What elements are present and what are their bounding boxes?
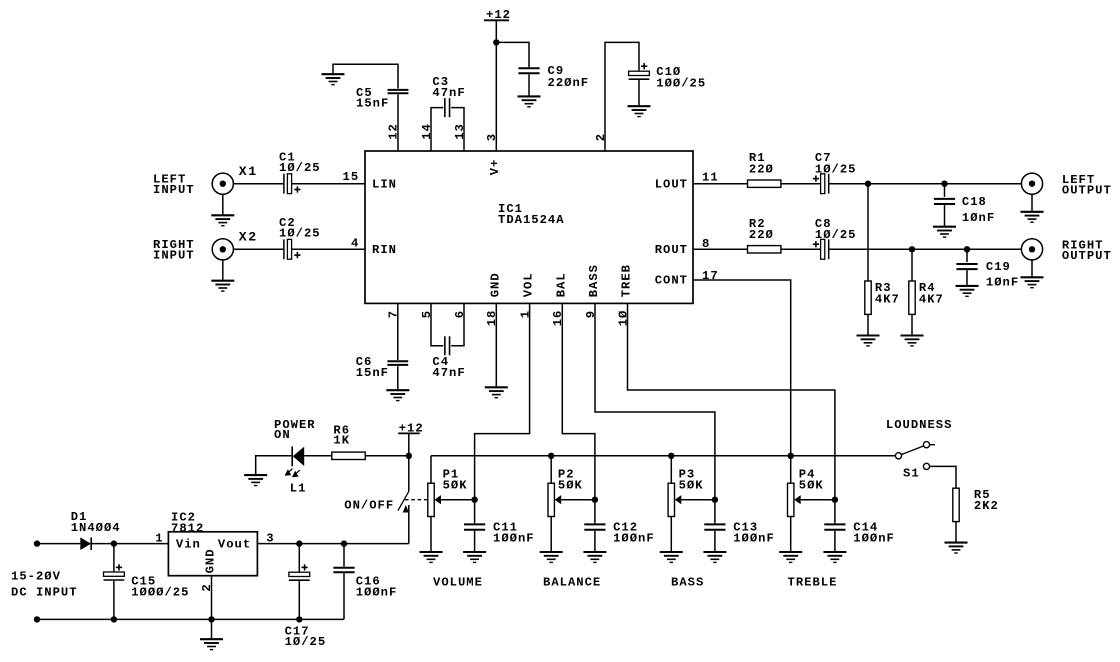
svg-text:11: 11 bbox=[702, 171, 719, 185]
svg-text:L1: L1 bbox=[290, 481, 307, 495]
ground R4 bbox=[901, 336, 924, 346]
wire terminal to D1 bbox=[37, 543, 80, 545]
wire pin7 to C6 bbox=[397, 303, 399, 360]
svg-text:S1: S1 bbox=[903, 466, 920, 480]
wire X1 to ground bbox=[222, 194, 224, 215]
wire to C18 bbox=[944, 184, 946, 197]
junction bbox=[941, 181, 947, 187]
junction bbox=[548, 453, 554, 459]
svg-text:X2: X2 bbox=[239, 229, 258, 244]
wire R3 to ground bbox=[867, 314, 869, 335]
wire LED to R6 bbox=[304, 455, 332, 457]
ground C13 bbox=[703, 552, 726, 562]
ground P1 bbox=[420, 552, 443, 562]
capacitor C9 bbox=[518, 68, 539, 73]
capacitor C13 bbox=[704, 524, 725, 529]
wire to C16 bbox=[343, 544, 345, 567]
junction bbox=[964, 246, 970, 252]
wire CONT to loudness rail bbox=[693, 280, 791, 456]
svg-text:15: 15 bbox=[343, 170, 360, 184]
wire R4 to ground bbox=[911, 314, 913, 335]
svg-text:+12: +12 bbox=[486, 8, 511, 22]
wire ground to LED bbox=[256, 456, 293, 475]
ground P4 bbox=[779, 552, 802, 562]
diode D1 bbox=[80, 537, 91, 550]
ground P2 bbox=[540, 552, 563, 562]
switch S1 bbox=[895, 442, 935, 470]
resistor R5 bbox=[953, 488, 959, 521]
svg-text:BASS: BASS bbox=[587, 264, 601, 297]
svg-text:GND: GND bbox=[204, 548, 218, 573]
svg-text:22ØnF: 22ØnF bbox=[548, 76, 590, 90]
svg-text:15nF: 15nF bbox=[356, 97, 389, 111]
wire to C17 bbox=[298, 544, 300, 573]
wire ROUT to R2 bbox=[693, 248, 748, 250]
wire P1 wiper bbox=[441, 499, 475, 501]
svg-text:1ØØnF: 1ØØnF bbox=[733, 531, 775, 545]
ground left output bbox=[1021, 212, 1044, 222]
svg-text:BAL: BAL bbox=[554, 272, 568, 297]
resistor R1 bbox=[748, 180, 781, 187]
svg-text:RIN: RIN bbox=[372, 243, 397, 257]
wire C18 to ground bbox=[944, 205, 946, 227]
wire rail to P2 bbox=[550, 456, 552, 483]
svg-text:V+: V+ bbox=[488, 159, 502, 176]
ground R3 bbox=[857, 336, 880, 346]
capacitor C19 bbox=[956, 264, 977, 269]
junction bbox=[788, 453, 794, 459]
capacitor C10 bbox=[629, 71, 650, 79]
svg-text:1ØØnF: 1ØØnF bbox=[853, 531, 895, 545]
svg-text:LOUDNESS: LOUDNESS bbox=[886, 418, 953, 432]
svg-text:C18: C18 bbox=[962, 195, 987, 209]
wire pin10 TREB to P4 wiper bbox=[628, 303, 835, 523]
svg-text:1K: 1K bbox=[333, 434, 350, 448]
plus C8 bbox=[813, 241, 819, 247]
capacitor C3 bbox=[445, 98, 450, 117]
wire C9 to ground bbox=[528, 74, 530, 96]
svg-text:BALANCE: BALANCE bbox=[543, 575, 601, 589]
wire to C19 bbox=[966, 249, 968, 262]
wire C4 to pin6 bbox=[451, 303, 464, 346]
wire C14 to ground bbox=[834, 531, 836, 552]
junction bbox=[865, 181, 871, 187]
switch ON/OFF bbox=[398, 456, 409, 544]
svg-text:5ØK: 5ØK bbox=[558, 478, 583, 492]
wire R6 to +12 node bbox=[365, 455, 409, 457]
wire pin9 BASS to P3 wiper bbox=[595, 303, 715, 523]
wire C6 to ground bbox=[397, 366, 399, 390]
junction bbox=[296, 616, 302, 622]
wire C15 to rail bbox=[113, 581, 115, 620]
wire P3 wiper bbox=[681, 499, 715, 501]
plus C2 bbox=[294, 252, 300, 258]
wire C17 to rail bbox=[298, 581, 300, 619]
junction bbox=[471, 497, 477, 503]
plus C1 bbox=[294, 186, 300, 192]
power flag +12 switch bbox=[398, 432, 420, 434]
svg-text:X1: X1 bbox=[239, 164, 258, 179]
wire C7 to left output bbox=[829, 183, 1022, 185]
wire pin16 BAL to P2 wiper bbox=[562, 303, 595, 523]
wire pin2 to C10 bbox=[605, 42, 639, 151]
wire P3 to ground bbox=[670, 517, 672, 553]
wire P2 wiper bbox=[561, 499, 595, 501]
svg-text:2K2: 2K2 bbox=[974, 499, 999, 513]
wire CONT rail bbox=[431, 455, 895, 457]
capacitor C2 bbox=[284, 239, 292, 259]
junction bbox=[341, 540, 347, 546]
svg-text:TREB: TREB bbox=[620, 264, 634, 297]
svg-text:ON: ON bbox=[274, 428, 291, 442]
potentiometer P4 bbox=[788, 483, 801, 516]
wire P4 to ground bbox=[790, 517, 792, 553]
svg-text:1Ø/25: 1Ø/25 bbox=[279, 226, 321, 240]
potentiometer P2 bbox=[548, 483, 561, 516]
capacitor C4 bbox=[445, 336, 450, 355]
wire pin5 to C4 bbox=[431, 303, 443, 346]
terminal DC+ bbox=[34, 540, 40, 546]
svg-text:LIN: LIN bbox=[372, 177, 397, 191]
wire C16 to rail bbox=[343, 573, 345, 619]
svg-text:4: 4 bbox=[351, 236, 359, 250]
junction bbox=[111, 540, 117, 546]
capacitor C1 bbox=[284, 174, 292, 194]
svg-text:22Ø: 22Ø bbox=[749, 162, 774, 176]
wire C12 to ground bbox=[594, 531, 596, 552]
junction bbox=[712, 497, 718, 503]
svg-text:1ØØnF: 1ØØnF bbox=[613, 531, 655, 545]
wire C3 to pin13 bbox=[451, 108, 464, 151]
junction bbox=[406, 453, 412, 459]
dashed link ON/OFF to P1 bbox=[405, 499, 428, 501]
svg-text:5ØK: 5ØK bbox=[799, 478, 824, 492]
ground X2 bbox=[211, 281, 234, 291]
capacitor C6 bbox=[387, 361, 408, 365]
wire rail to P1 bbox=[430, 456, 432, 483]
svg-text:1ØØ/25: 1ØØ/25 bbox=[656, 76, 706, 90]
svg-text:1ØnF: 1ØnF bbox=[986, 275, 1019, 289]
wire C19 to ground bbox=[966, 270, 968, 286]
wire IC2 pin2 bbox=[211, 576, 213, 620]
svg-text:INPUT: INPUT bbox=[153, 183, 195, 197]
wire X1 to C1 bbox=[233, 183, 283, 185]
junction bbox=[296, 540, 302, 546]
svg-text:5ØK: 5ØK bbox=[443, 478, 468, 492]
svg-text:1Ø/25: 1Ø/25 bbox=[279, 161, 321, 175]
wire C8 to right output bbox=[829, 248, 1022, 250]
wire D1 to IC2 bbox=[91, 543, 168, 545]
resistor R3 bbox=[865, 281, 871, 314]
wire S1 to R5 bbox=[930, 466, 956, 488]
junction bbox=[111, 616, 117, 622]
svg-text:47nF: 47nF bbox=[432, 86, 465, 100]
wire C11 to ground bbox=[474, 531, 476, 552]
connector X2 bbox=[212, 239, 233, 260]
ground right output bbox=[1021, 277, 1044, 287]
ground bbox=[518, 96, 541, 106]
ground LED bbox=[244, 475, 267, 485]
ground pin18 bbox=[485, 387, 508, 397]
svg-text:OUTPUT: OUTPUT bbox=[1062, 184, 1112, 198]
svg-text:22Ø: 22Ø bbox=[749, 228, 774, 242]
connector LEFT OUTPUT bbox=[1021, 173, 1042, 194]
svg-text:1N4ØØ4: 1N4ØØ4 bbox=[71, 521, 121, 535]
wire R5 to ground bbox=[955, 522, 957, 543]
junction bbox=[668, 453, 674, 459]
junction bbox=[493, 39, 499, 45]
wire X2 to ground bbox=[222, 260, 224, 281]
svg-text:BASS: BASS bbox=[671, 575, 704, 589]
wire C10 to ground bbox=[638, 80, 640, 106]
junction bbox=[832, 497, 838, 503]
wire LOUT to R1 bbox=[693, 183, 748, 185]
plus C17 bbox=[302, 564, 308, 570]
capacitor C18 bbox=[934, 199, 955, 204]
svg-text:1Ø/25: 1Ø/25 bbox=[815, 162, 857, 176]
ground C11 bbox=[463, 552, 486, 562]
svg-text:7812: 7812 bbox=[171, 521, 204, 535]
capacitor C12 bbox=[584, 524, 605, 529]
svg-text:4K7: 4K7 bbox=[875, 293, 900, 307]
svg-text:Vout: Vout bbox=[218, 538, 251, 552]
wire C5 to pin 12 bbox=[397, 94, 399, 151]
wire to ground bbox=[1031, 260, 1033, 277]
svg-text:TDA1524A: TDA1524A bbox=[498, 213, 565, 227]
svg-text:Vin: Vin bbox=[176, 538, 201, 552]
potentiometer P1 bbox=[428, 483, 441, 516]
svg-text:1ØnF: 1ØnF bbox=[962, 211, 995, 225]
ground C14 bbox=[823, 552, 846, 562]
wire to C15 bbox=[113, 544, 115, 572]
plus C15 bbox=[116, 564, 122, 570]
wire rail to P3 bbox=[670, 456, 672, 483]
resistor R6 bbox=[332, 452, 365, 459]
ground X1 bbox=[211, 215, 234, 225]
svg-text:47nF: 47nF bbox=[432, 366, 465, 380]
wire X2 to C2 bbox=[233, 248, 283, 250]
wire R1 to C7 bbox=[781, 183, 821, 185]
wire pin14 to C3 bbox=[431, 108, 443, 151]
wire to ground bbox=[1031, 194, 1033, 212]
terminal DC- bbox=[34, 616, 40, 622]
wire pin18 to ground bbox=[495, 303, 497, 387]
wire C13 to ground bbox=[714, 531, 716, 552]
ground P3 bbox=[660, 552, 683, 562]
wire rail to P4 bbox=[790, 456, 792, 483]
wire bottom rail bbox=[37, 618, 344, 620]
ground bbox=[628, 106, 651, 116]
svg-text:VOLUME: VOLUME bbox=[433, 575, 483, 589]
svg-text:INPUT: INPUT bbox=[153, 248, 195, 262]
wire pin1 VOL to P1 wiper bbox=[475, 303, 530, 523]
svg-text:ROUT: ROUT bbox=[655, 243, 688, 257]
resistor R2 bbox=[748, 246, 781, 253]
capacitor C5 bbox=[388, 90, 409, 93]
wire R2 to C8 bbox=[781, 248, 821, 250]
wire ground to C5 bbox=[333, 64, 398, 88]
svg-text:1Ø/25: 1Ø/25 bbox=[285, 635, 327, 649]
ground C12 bbox=[583, 552, 606, 562]
IC IC1 TDA1524A bbox=[365, 151, 693, 303]
ground supply bbox=[200, 639, 223, 649]
wire P1 to ground bbox=[430, 517, 432, 553]
plus C10 bbox=[641, 63, 647, 69]
svg-text:VOL: VOL bbox=[522, 272, 536, 297]
capacitor C11 bbox=[464, 524, 485, 529]
wire pin3 to +12 bbox=[495, 20, 497, 151]
plus C7 bbox=[813, 176, 819, 182]
ground R5 bbox=[945, 543, 968, 553]
svg-text:C19: C19 bbox=[986, 260, 1011, 274]
svg-text:1ØØnF: 1ØØnF bbox=[356, 586, 398, 600]
wire C2 to RIN bbox=[292, 248, 365, 250]
svg-text:TREBLE: TREBLE bbox=[788, 575, 838, 589]
wire to C9 bbox=[496, 42, 529, 67]
wire to ground bbox=[211, 619, 213, 639]
ground C6 bbox=[386, 390, 409, 400]
svg-text:OUTPUT: OUTPUT bbox=[1062, 249, 1112, 263]
svg-text:CONT: CONT bbox=[655, 274, 688, 288]
capacitor C8 bbox=[821, 239, 829, 259]
IC IC2 7812 bbox=[168, 532, 257, 576]
svg-text:DC INPUT: DC INPUT bbox=[11, 586, 78, 600]
wire to R4 bbox=[911, 249, 913, 281]
LED L1 bbox=[286, 446, 305, 476]
connector RIGHT OUTPUT bbox=[1021, 239, 1042, 260]
junction bbox=[909, 246, 915, 252]
svg-text:GND: GND bbox=[488, 272, 502, 297]
connector X1 bbox=[212, 173, 233, 194]
wire P4 wiper bbox=[801, 499, 835, 501]
wire to R3 bbox=[867, 184, 869, 281]
ground C18 bbox=[933, 227, 956, 237]
wire +12 flag bbox=[408, 433, 410, 455]
svg-text:LOUT: LOUT bbox=[655, 177, 688, 191]
svg-text:15-2ØV: 15-2ØV bbox=[11, 570, 61, 584]
ground C19 bbox=[956, 286, 979, 296]
svg-text:1: 1 bbox=[155, 532, 163, 546]
svg-text:1ØØØ/25: 1ØØØ/25 bbox=[131, 586, 189, 600]
svg-text:+12: +12 bbox=[399, 422, 424, 436]
svg-text:1ØØnF: 1ØØnF bbox=[493, 531, 535, 545]
wire IC2 out to switch bbox=[257, 543, 408, 545]
svg-text:ON/OFF: ON/OFF bbox=[344, 498, 394, 512]
power flag +12 bbox=[484, 19, 509, 21]
svg-text:4K7: 4K7 bbox=[919, 293, 944, 307]
wire P2 to ground bbox=[550, 517, 552, 553]
wire C1 to LIN bbox=[292, 183, 365, 185]
junction bbox=[592, 497, 598, 503]
svg-text:15nF: 15nF bbox=[356, 366, 389, 380]
potentiometer P3 bbox=[668, 483, 681, 516]
svg-text:5ØK: 5ØK bbox=[679, 478, 704, 492]
junction bbox=[208, 616, 214, 622]
resistor R4 bbox=[909, 281, 915, 314]
ground C5 bbox=[322, 74, 345, 84]
svg-text:1Ø/25: 1Ø/25 bbox=[815, 228, 857, 242]
capacitor C14 bbox=[824, 524, 845, 529]
capacitor C7 bbox=[821, 174, 829, 194]
svg-text:17: 17 bbox=[702, 269, 719, 283]
